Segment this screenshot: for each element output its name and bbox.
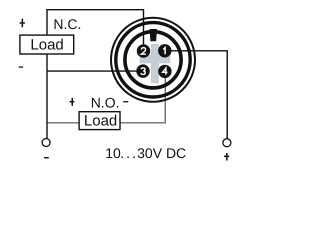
svg-text:10...30V DC: 10...30V DC: [105, 145, 186, 161]
terminal 0V (minus): [42, 139, 50, 147]
wire pin 1 to +V terminal: [165, 51, 227, 139]
pin 1: [158, 44, 171, 57]
label - (0V terminal): [44, 157, 49, 158]
svg-text:Load: Load: [30, 36, 63, 53]
wire pin 3 to 0V rail: [47, 70, 143, 72]
terminal +V (plus): [223, 139, 231, 147]
label - (N.O. load return): [123, 101, 128, 102]
label + (N.C. load supply): [20, 19, 25, 28]
wire N.O. branch (gray) from Load to pin 4: [120, 77, 165, 123]
svg-text:Load: Load: [84, 112, 117, 129]
connector outer ring: [111, 18, 195, 102]
label + (N.O. load supply): [70, 98, 75, 106]
label - (N.C. load return): [19, 66, 23, 67]
connector shield cross: [140, 44, 171, 83]
connector middle ring: [116, 23, 190, 97]
pin 4: [158, 65, 171, 78]
load box Load (N.C. circuit): [20, 35, 74, 54]
wire N.C. branch from rail top to pin 2: [47, 10, 144, 50]
wire 0V rail (left vertical): [46, 9, 48, 139]
wire N.O. branch (gray) from 0V rail to Load: [47, 122, 79, 124]
keyway notch: [150, 29, 157, 41]
svg-text:N.C.: N.C.: [53, 16, 81, 32]
pin 3: [136, 64, 149, 77]
label + (+V terminal): [224, 153, 229, 161]
load box Load (N.O. circuit): [79, 112, 120, 130]
pin 2: [137, 44, 150, 57]
connector inner ring: [125, 32, 181, 88]
svg-text:N.O.: N.O.: [91, 94, 120, 110]
